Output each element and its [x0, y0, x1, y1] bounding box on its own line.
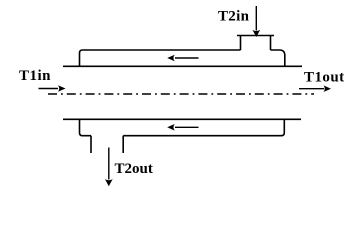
inlet stub T2in flange top: [237, 35, 274, 37]
svg-text:T2in: T2in: [218, 9, 250, 25]
shell top-left cap and top wall (left of inlet stub): [80, 50, 241, 66]
T1out flow arrow: [299, 88, 324, 90]
svg-text:T1in: T1in: [19, 68, 51, 84]
T2out outlet arrow (downward): [108, 148, 110, 180]
shell bottom-left cap and bottom wall (left of outlet stub): [80, 119, 92, 135]
inlet stub T2in right wall: [270, 36, 272, 51]
T2in inlet arrow (downward): [255, 6, 257, 31]
bottom annulus flow arrow (leftward): [175, 126, 199, 128]
svg-text:T1out: T1out: [304, 70, 345, 86]
svg-text:T2out: T2out: [115, 161, 153, 177]
inlet stub T2in left wall: [240, 36, 242, 51]
shell top wall right of inlet stub with right cap: [271, 50, 285, 66]
inner pipe top wall: [63, 65, 302, 67]
shell bottom wall right of outlet stub with right cap: [123, 119, 284, 135]
inner pipe bottom wall: [63, 118, 301, 120]
outlet stub T2out left wall: [90, 136, 92, 153]
centerline (dash-dot axis): [48, 93, 314, 95]
T1in flow arrow: [39, 88, 59, 90]
outlet stub T2out right wall: [122, 136, 124, 153]
top annulus flow arrow (leftward): [175, 57, 199, 59]
